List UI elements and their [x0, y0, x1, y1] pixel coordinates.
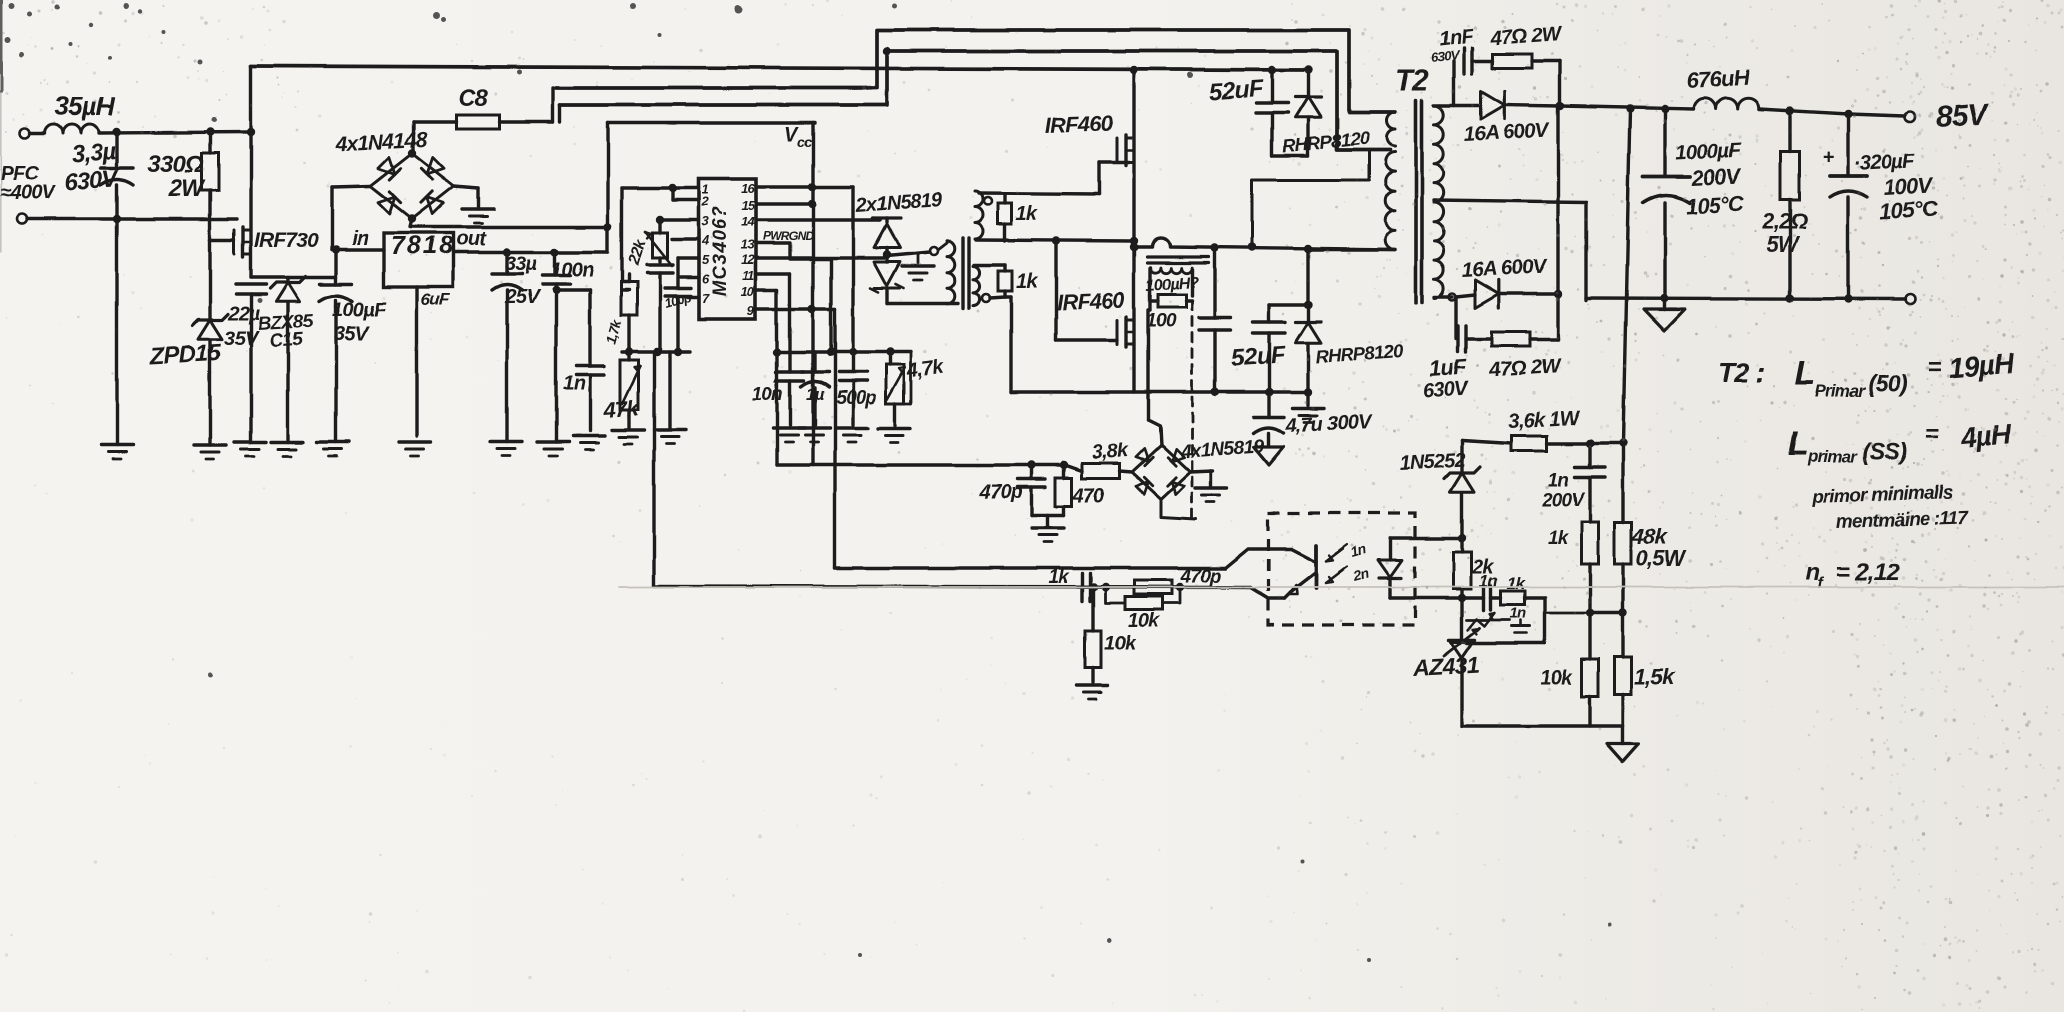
svg-text:105°C: 105°C [1879, 196, 1940, 224]
svg-text:0,5W: 0,5W [1636, 546, 1687, 571]
svg-text:2: 2 [701, 194, 710, 209]
svg-text:52uF: 52uF [1231, 341, 1288, 372]
svg-text:1n: 1n [563, 373, 585, 395]
svg-text:676uH: 676uH [1686, 65, 1751, 93]
svg-text:2,2Ω: 2,2Ω [1761, 209, 1807, 234]
svg-text:in: in [352, 228, 369, 250]
svg-text:15: 15 [741, 198, 755, 213]
svg-text:100n: 100n [551, 259, 594, 281]
svg-text:1n: 1n [1479, 572, 1498, 591]
svg-text:(SS): (SS) [1862, 439, 1908, 466]
svg-text:470p: 470p [1179, 566, 1220, 587]
svg-text:470p: 470p [979, 481, 1023, 503]
svg-text:= 2,12: = 2,12 [1836, 559, 1900, 586]
svg-text:4,7k: 4,7k [905, 356, 946, 383]
svg-text:=: = [1925, 421, 1939, 448]
svg-text:22µ: 22µ [227, 303, 261, 325]
svg-text:47Ω 2W: 47Ω 2W [1488, 354, 1563, 382]
svg-text:ZPD15: ZPD15 [148, 339, 222, 370]
svg-text:T2: T2 [1395, 64, 1430, 97]
svg-text:10n: 10n [752, 384, 783, 405]
svg-text:10k: 10k [1540, 667, 1573, 689]
svg-text:100: 100 [1146, 311, 1177, 332]
svg-text:1000µF: 1000µF [1675, 139, 1743, 165]
svg-text:RHRP8120: RHRP8120 [1281, 127, 1371, 157]
svg-text:RHRP8120: RHRP8120 [1315, 340, 1405, 367]
svg-text:52uF: 52uF [1209, 75, 1266, 106]
svg-text:AZ431: AZ431 [1412, 652, 1479, 681]
svg-text:630V: 630V [1423, 378, 1470, 403]
svg-text:≈400V: ≈400V [0, 182, 56, 204]
svg-text:16A 600V: 16A 600V [1461, 254, 1549, 282]
svg-text:+: + [1822, 146, 1834, 168]
svg-text:4,7u 300V: 4,7u 300V [1284, 410, 1374, 437]
svg-text:14: 14 [741, 214, 755, 229]
svg-text:1k: 1k [1548, 528, 1570, 549]
svg-text:7818: 7818 [391, 232, 455, 260]
svg-text:PWRGND: PWRGND [763, 229, 814, 243]
svg-text:13: 13 [741, 237, 755, 252]
svg-text:f: f [1818, 575, 1825, 592]
svg-text:10k: 10k [1104, 633, 1137, 655]
svg-text:1µ: 1µ [806, 385, 825, 404]
svg-text:500p: 500p [836, 388, 876, 409]
svg-text:cc: cc [797, 134, 812, 150]
svg-text:11: 11 [742, 268, 754, 283]
svg-text:330Ω: 330Ω [147, 151, 204, 178]
svg-text:200V: 200V [1690, 163, 1744, 191]
svg-text:·320µF: ·320µF [1853, 149, 1916, 175]
svg-text:1k: 1k [1016, 271, 1038, 293]
svg-text:16A 600V: 16A 600V [1463, 118, 1551, 146]
svg-text:4µH: 4µH [1959, 419, 2014, 454]
svg-text:primor minimalls: primor minimalls [1810, 482, 1952, 508]
svg-text:1k: 1k [1016, 203, 1038, 225]
svg-text:35µH: 35µH [55, 91, 117, 121]
svg-text:3: 3 [702, 214, 710, 229]
svg-text:7: 7 [702, 291, 710, 306]
svg-text:1n: 1n [1510, 605, 1527, 622]
svg-text:2x1N5819: 2x1N5819 [854, 189, 944, 217]
svg-text:470: 470 [1072, 485, 1105, 507]
svg-text:2W: 2W [168, 175, 207, 202]
svg-text:200V: 200V [1541, 490, 1585, 511]
svg-text:out: out [456, 228, 487, 250]
svg-text:IRF460: IRF460 [1044, 111, 1114, 138]
svg-text:33µ: 33µ [505, 253, 538, 275]
svg-text:12: 12 [741, 252, 755, 267]
svg-text:47k: 47k [602, 395, 642, 423]
svg-text:L: L [1795, 355, 1815, 393]
svg-text:1k: 1k [1048, 567, 1070, 588]
svg-text:100p: 100p [663, 289, 693, 311]
svg-text:6uF: 6uF [421, 290, 450, 309]
svg-text:1,5k: 1,5k [1634, 664, 1676, 689]
svg-text:10: 10 [741, 284, 755, 299]
svg-text:47Ω 2W: 47Ω 2W [1488, 22, 1563, 50]
svg-text:Primar: Primar [1815, 382, 1866, 401]
svg-text:4x1N5819: 4x1N5819 [1179, 435, 1266, 463]
svg-text:16: 16 [741, 181, 755, 196]
svg-text:19µH: 19µH [1948, 347, 2016, 384]
svg-text:3,3µ: 3,3µ [71, 138, 118, 168]
svg-text:630V: 630V [64, 165, 121, 196]
svg-text:105°C: 105°C [1685, 191, 1746, 219]
svg-text:3,6k 1W: 3,6k 1W [1507, 406, 1581, 433]
svg-text:4: 4 [701, 233, 710, 248]
svg-text:IRF730: IRF730 [254, 229, 319, 252]
svg-text:C15: C15 [269, 329, 304, 352]
svg-text:MC3406?: MC3406? [710, 206, 731, 296]
svg-text:1n: 1n [1349, 541, 1368, 560]
svg-text:10k: 10k [1128, 610, 1161, 632]
svg-text:25V: 25V [504, 286, 541, 308]
svg-text:35V: 35V [224, 328, 260, 350]
svg-text:85V: 85V [1934, 97, 1991, 134]
svg-text:3,8k: 3,8k [1091, 439, 1130, 464]
svg-text:primar: primar [1807, 447, 1858, 466]
svg-text:5: 5 [702, 252, 710, 267]
svg-text:630V: 630V [1431, 47, 1462, 65]
svg-text:L: L [1788, 425, 1808, 463]
svg-text:6: 6 [702, 271, 710, 286]
svg-text:1,7k: 1,7k [602, 316, 624, 345]
svg-text:1n: 1n [1548, 470, 1569, 491]
svg-text:35V: 35V [334, 323, 370, 345]
svg-text:IRF460: IRF460 [1056, 288, 1126, 315]
svg-text:2n: 2n [1351, 565, 1371, 585]
svg-text:100µF: 100µF [332, 299, 387, 321]
svg-text:T2 :: T2 : [1718, 357, 1765, 388]
svg-text:C8: C8 [458, 85, 489, 112]
